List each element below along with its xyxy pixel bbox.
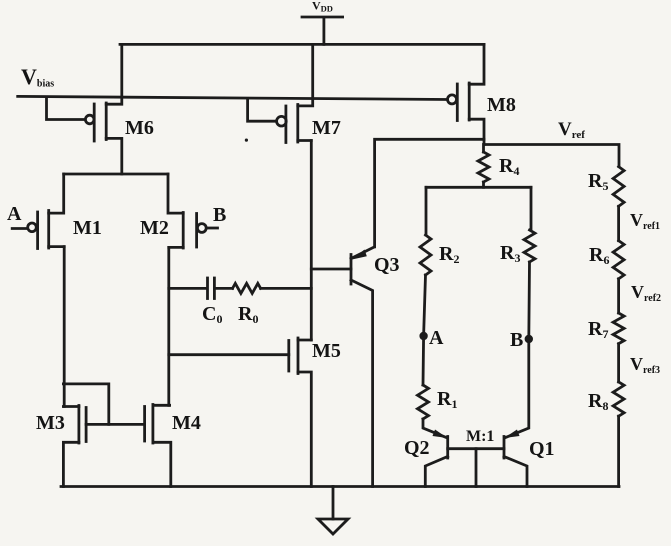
transistor M3 (NMOS, diode connected) — [36, 406, 86, 487]
wire M8 drain to Vref node — [484, 145, 619, 167]
transistor Q1 (PNP) — [504, 339, 555, 487]
transistor Q3 (PNP) — [311, 247, 399, 487]
wire M8 drain to Q3 emitter node — [375, 139, 484, 247]
transistor M2 (PMOS) — [140, 174, 226, 248]
node A — [419, 327, 444, 349]
svg-text:B: B — [213, 204, 226, 226]
wire bottom ground rail — [61, 485, 619, 488]
transistor Q2 (PNP) — [404, 419, 504, 487]
svg-text:M3: M3 — [36, 412, 65, 434]
transistor M4 (NMOS) — [145, 405, 201, 487]
wire Q1/Q2 base to ground — [475, 449, 478, 487]
resistor R3 — [500, 187, 535, 339]
transistor M1 (PMOS) — [7, 174, 102, 249]
svg-text:M2: M2 — [140, 217, 169, 239]
wire M1/M2 source bus — [64, 173, 168, 176]
wire Vbias line — [18, 96, 448, 99]
wire M7 drain down to M5 drain — [310, 141, 313, 341]
svg-text:Q2: Q2 — [404, 437, 430, 459]
svg-text:M5: M5 — [312, 340, 341, 362]
wire M2 drain down to M4 drain — [167, 247, 170, 405]
power symbol VDD — [302, 0, 343, 44]
wire R2/R3 top line — [426, 186, 531, 189]
stray ink dot — [245, 139, 248, 142]
node B — [510, 329, 533, 351]
svg-text:M8: M8 — [487, 94, 516, 116]
transistor M5 (NMOS) — [169, 338, 341, 487]
svg-text:M6: M6 — [125, 117, 154, 139]
transistor M8 (PMOS) — [448, 44, 516, 144]
wire R8 to ground rail — [617, 416, 620, 486]
transistor M6 (PMOS) — [47, 44, 154, 174]
transistor M7 (PMOS) — [248, 44, 341, 142]
ground — [318, 487, 348, 535]
wire top VDD rail — [120, 43, 484, 46]
svg-text:A: A — [7, 203, 22, 225]
wire M3 diode connection — [63, 384, 108, 425]
svg-text:M:1: M:1 — [466, 428, 494, 445]
resistor R6 — [589, 241, 624, 279]
wire R7-R8 — [617, 344, 620, 382]
capacitor C0 — [169, 278, 223, 326]
resistor R4 — [478, 145, 519, 188]
wire M1 drain down to M3 drain — [63, 247, 66, 407]
wire M3-M4 gate line — [86, 423, 145, 426]
resistor R1 — [418, 336, 458, 419]
wire R6-R7 — [617, 279, 620, 313]
svg-text:M7: M7 — [312, 117, 341, 139]
resistor R0 — [215, 283, 311, 326]
svg-text:A: A — [429, 327, 444, 349]
svg-text:M4: M4 — [172, 412, 201, 434]
svg-text:B: B — [510, 329, 523, 351]
resistor R7 — [588, 313, 624, 344]
svg-text:M1: M1 — [73, 217, 102, 239]
svg-text:Q3: Q3 — [374, 254, 400, 276]
resistor R8 — [588, 382, 624, 416]
resistor R5 — [588, 167, 624, 207]
wire R5-R6 — [617, 206, 620, 240]
svg-text:Q1: Q1 — [529, 438, 555, 460]
resistor R2 — [420, 187, 459, 336]
